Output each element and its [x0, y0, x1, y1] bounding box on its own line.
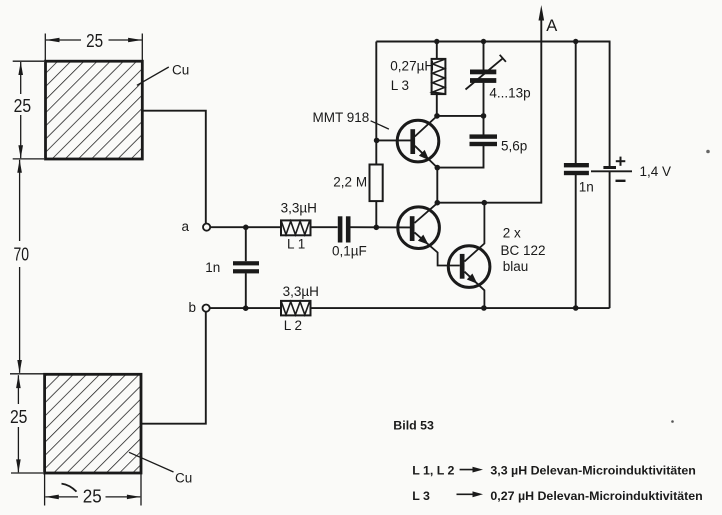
- svg-text:L 3: L 3: [412, 489, 430, 503]
- svg-text:25: 25: [86, 31, 103, 51]
- svg-text:blau: blau: [503, 259, 529, 274]
- svg-text:L 3: L 3: [391, 78, 409, 93]
- svg-text:3,3 µH Delevan-Microinduktivit: 3,3 µH Delevan-Microinduktivitäten: [490, 463, 695, 477]
- svg-text:25: 25: [83, 487, 102, 507]
- svg-text:L 1, L 2: L 1, L 2: [412, 463, 454, 477]
- svg-text:2,2 M: 2,2 M: [333, 174, 367, 189]
- svg-text:L 2: L 2: [284, 318, 302, 333]
- svg-text:MMT 918: MMT 918: [313, 110, 370, 125]
- svg-text:Cu: Cu: [175, 471, 192, 486]
- svg-text:b: b: [189, 300, 197, 315]
- svg-text:0,1µF: 0,1µF: [332, 243, 367, 258]
- svg-text:3,3µH: 3,3µH: [283, 284, 319, 299]
- svg-text:70: 70: [14, 244, 30, 264]
- svg-text:25: 25: [14, 96, 32, 116]
- svg-text:1,4 V: 1,4 V: [640, 164, 672, 179]
- svg-text:L 1: L 1: [287, 237, 305, 252]
- svg-text:4...13p: 4...13p: [489, 85, 530, 100]
- svg-text:BC 122: BC 122: [501, 243, 546, 258]
- svg-text:Bild 53: Bild 53: [393, 418, 434, 432]
- svg-text:1n: 1n: [205, 260, 220, 275]
- svg-text:Cu: Cu: [172, 63, 189, 78]
- svg-text:5,6p: 5,6p: [501, 138, 527, 153]
- svg-text:0,27µH: 0,27µH: [390, 59, 434, 74]
- svg-text:1n: 1n: [579, 180, 594, 195]
- svg-text:0,27 µH Delevan-Microinduktivi: 0,27 µH Delevan-Microinduktivitäten: [490, 489, 702, 503]
- svg-text:A: A: [546, 17, 557, 35]
- svg-text:2 x: 2 x: [503, 225, 521, 240]
- svg-text:3,3µH: 3,3µH: [281, 201, 317, 216]
- svg-text:a: a: [182, 219, 190, 234]
- svg-text:25: 25: [10, 407, 28, 427]
